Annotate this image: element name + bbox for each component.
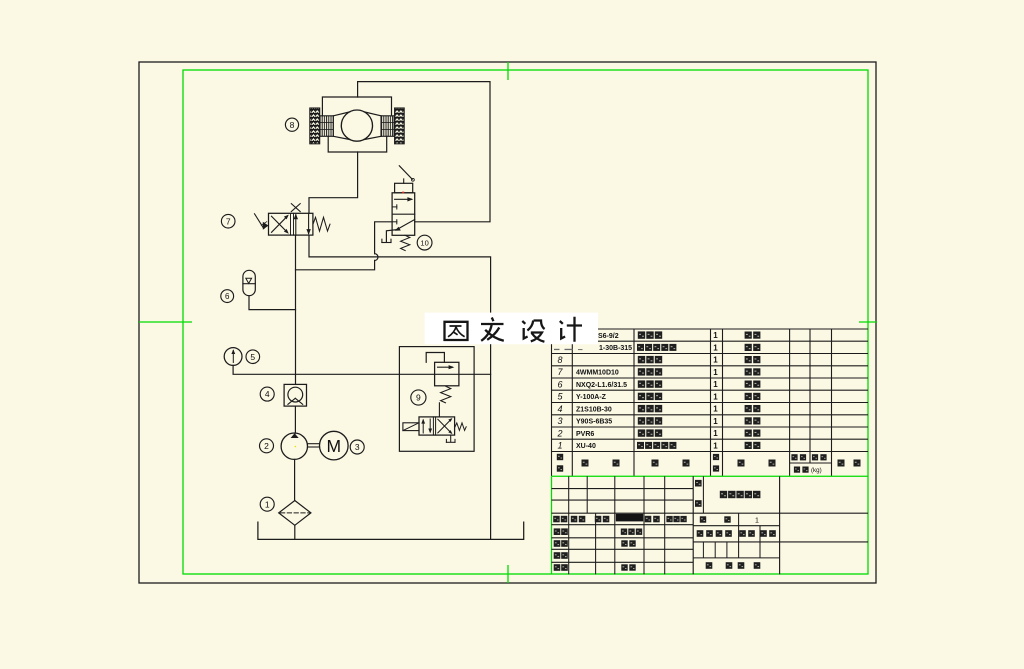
svg-text:(kg): (kg) [811, 467, 822, 474]
svg-text:XU-40: XU-40 [576, 443, 596, 450]
valve 10 cap [395, 183, 413, 193]
wire valve10 pilot line to main line (with hop over return) [375, 222, 393, 254]
wire valve7 tank return line [309, 235, 491, 539]
BOM header text [557, 454, 563, 460]
svg-text:4: 4 [265, 389, 270, 399]
watermark char 文 [481, 318, 504, 341]
outer black drawing border [139, 62, 876, 583]
balloon label 1 [260, 497, 274, 511]
relief 9 pilot valve body [435, 362, 459, 386]
valve 10 body [392, 193, 415, 236]
svg-text:1: 1 [265, 499, 270, 509]
balloon label 7 [221, 214, 235, 228]
svg-text:4WMM10D10: 4WMM10D10 [576, 370, 619, 377]
wire filter to tank [294, 525, 296, 539]
wire comp8 top to valve10 right port [358, 82, 490, 222]
component 8 drum-roller unit: top bracket [322, 97, 391, 116]
wire main pressure line valve7 down to check valve [295, 235, 297, 384]
BOM rows text [556, 331, 760, 450]
svg-text:1: 1 [557, 441, 562, 451]
valve 10 lever [403, 179, 405, 183]
component 8 left outer hatched block [310, 108, 320, 144]
balloon label 3 [350, 440, 364, 454]
wire comp8 bottom to valve7 [309, 152, 358, 213]
valve 7 spring right [313, 217, 330, 231]
valve 10 bottom-cell diagonal with arrow [397, 220, 415, 230]
component 8 left striped bearing block [320, 116, 334, 137]
balloon label 6 [221, 290, 234, 303]
balloon label 4 [260, 387, 274, 401]
filter 1 diamond [279, 501, 311, 526]
svg-text:1: 1 [713, 343, 718, 352]
valve 7 body [269, 213, 313, 235]
component 8 cone lines [333, 112, 349, 116]
green centering mark top [507, 62, 509, 80]
svg-text:1: 1 [713, 417, 718, 426]
svg-text:9: 9 [416, 393, 421, 403]
svg-text:1: 1 [713, 392, 718, 401]
svg-text:M: M [327, 436, 342, 456]
svg-text:3: 3 [557, 416, 562, 426]
valve 7 right-cell down line from top port [308, 213, 310, 233]
svg-text:10: 10 [420, 238, 428, 247]
svg-text:4: 4 [557, 404, 562, 414]
valve 10 red dot [402, 192, 404, 194]
wire gauge branch line to relief assembly [233, 365, 491, 374]
svg-text:3: 3 [355, 442, 360, 452]
wire check valve to pump [294, 406, 296, 433]
svg-text:5: 5 [250, 352, 255, 362]
svg-text:1: 1 [713, 356, 718, 365]
svg-text:1: 1 [713, 441, 718, 450]
svg-text:1: 1 [713, 368, 718, 377]
check valve 4 [284, 384, 306, 406]
balloon label 8 [285, 118, 298, 131]
svg-text:Y90S-6B35: Y90S-6B35 [576, 419, 612, 426]
svg-text:1-30B-315: 1-30B-315 [599, 345, 632, 352]
inner green frame [183, 70, 868, 574]
pump 2 [281, 433, 307, 459]
svg-text:1: 1 [755, 517, 759, 524]
relief 9 directional valve body [419, 417, 455, 435]
svg-text:NXQ2-L1.6/31.5: NXQ2-L1.6/31.5 [576, 382, 627, 389]
svg-text:1: 1 [713, 331, 718, 340]
valve 7 left-cell crossed arrows [272, 216, 288, 232]
balloon label 2 [260, 439, 274, 453]
relief 9 drain tank symbol [450, 435, 452, 442]
valve 10 spring below [401, 235, 410, 250]
relief 9 right spring [455, 423, 466, 431]
svg-text:2: 2 [264, 441, 269, 451]
svg-text:8: 8 [557, 355, 562, 365]
watermark char 图 [445, 322, 468, 340]
row9 code remnant dashes [554, 349, 560, 350]
BOM parts table [552, 329, 869, 476]
relief 9 left cell arrows [422, 420, 424, 433]
svg-text:2: 2 [556, 428, 562, 438]
relief 9 pilot top jog [426, 353, 444, 363]
green centering mark bottom [507, 565, 509, 583]
wire pump to filter [294, 459, 296, 500]
relief assembly 9 enclosure box [399, 347, 474, 452]
svg-text:Y-100A-Z: Y-100A-Z [576, 394, 607, 401]
oil tank [258, 522, 524, 539]
valve 7 right-cell up arrow line [295, 215, 297, 235]
valve 10 bottom-cell left port stub [392, 221, 397, 223]
green centering mark right [859, 321, 877, 323]
component 8 right striped bearing block [381, 116, 394, 137]
balloon label 9 [411, 390, 426, 405]
svg-text:6: 6 [557, 379, 562, 389]
valve 10 top-cell flow arrow [395, 198, 412, 200]
title block labels [553, 516, 560, 523]
relief 9 spring to valve stem [438, 403, 440, 417]
watermark char 设 [522, 321, 544, 342]
svg-text:8: 8 [290, 120, 295, 130]
svg-text:6: 6 [225, 292, 230, 301]
svg-text:Z1S10B-30: Z1S10B-30 [576, 406, 612, 413]
relief 9 pilot spring [441, 386, 451, 403]
coupling shaft [308, 443, 320, 445]
green centering mark left [139, 321, 192, 323]
wire accumulator to main line [249, 296, 296, 310]
title block [552, 476, 869, 574]
svg-text:PVR6: PVR6 [576, 431, 594, 438]
accumulator 6 [243, 270, 255, 295]
svg-text:1: 1 [713, 429, 718, 438]
component 8 bottom bracket [328, 136, 387, 152]
svg-text:7: 7 [226, 216, 231, 226]
component 8 central roller circle [341, 110, 372, 141]
pressure gauge 5 [224, 348, 242, 366]
valve 10 drain to tank symbol [386, 230, 396, 242]
balloon label 5 [246, 350, 260, 364]
valve 7 closed port X above [291, 204, 300, 212]
balloon label 10 [417, 235, 432, 250]
relief 9 left pilot actuator box [403, 423, 419, 431]
component 8 right outer hatched block [395, 108, 405, 144]
valve 10 top-cell left port stub [392, 206, 397, 208]
valve 7 manual lever left [255, 214, 264, 229]
motor 3 [320, 431, 349, 460]
relief 9 right cell crossed arrows [438, 419, 451, 433]
watermark 图文设计 white box [425, 313, 598, 345]
watermark char 计 [560, 317, 582, 342]
svg-text:1: 1 [713, 405, 718, 414]
svg-text:S6-9/2: S6-9/2 [598, 333, 619, 340]
svg-text:1: 1 [713, 380, 718, 389]
